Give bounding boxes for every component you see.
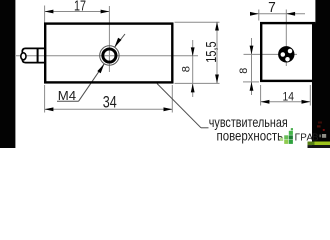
svg-text:15,5: 15,5 bbox=[202, 41, 219, 62]
svg-text:8: 8 bbox=[180, 66, 192, 72]
svg-text:M4: M4 bbox=[58, 88, 76, 103]
svg-text:14: 14 bbox=[283, 91, 294, 104]
svg-text:34: 34 bbox=[103, 94, 117, 112]
svg-text:8: 8 bbox=[238, 68, 250, 74]
svg-text:поверхность: поверхность bbox=[217, 129, 284, 144]
svg-text:7: 7 bbox=[268, 0, 276, 15]
svg-text:17: 17 bbox=[74, 0, 86, 14]
